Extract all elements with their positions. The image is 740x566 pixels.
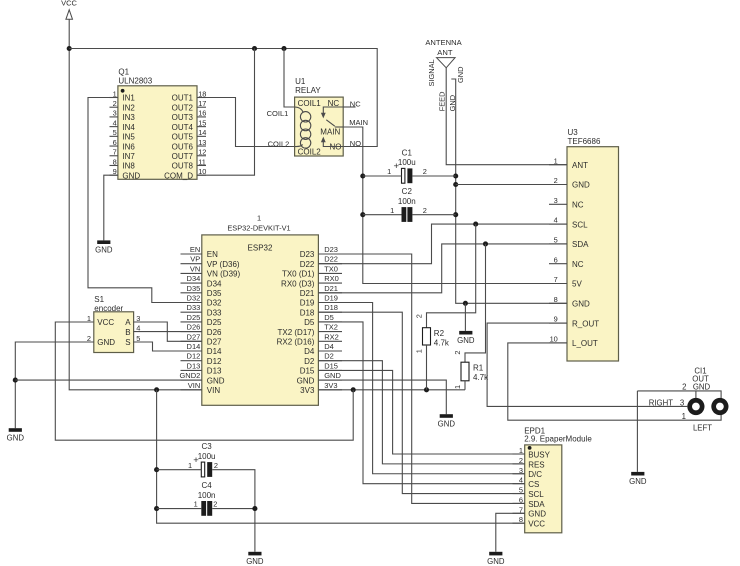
wire C4 pin 1: [157, 508, 202, 510]
svg-text:ANTENNA: ANTENNA: [425, 38, 462, 47]
wire GND2 row to ESP32: [15, 379, 202, 381]
svg-text:IN3: IN3: [122, 113, 135, 122]
svg-text:D26: D26: [187, 323, 201, 332]
module EPD1 2.9 EpaperModule: [513, 426, 593, 532]
svg-text:CS: CS: [528, 480, 539, 489]
svg-text:encoder: encoder: [94, 304, 123, 313]
wire relay NC stub: [343, 106, 355, 108]
svg-text:NO: NO: [350, 139, 361, 148]
svg-text:NC: NC: [572, 260, 584, 269]
svg-text:D15: D15: [324, 361, 338, 370]
svg-text:D35: D35: [187, 284, 201, 293]
svg-text:RES: RES: [528, 460, 544, 469]
relay U1: [295, 77, 344, 156]
svg-text:R_OUT: R_OUT: [572, 319, 599, 328]
svg-text:14: 14: [198, 128, 206, 137]
svg-text:TX2 (D17): TX2 (D17): [277, 328, 314, 337]
svg-text:IN7: IN7: [122, 152, 135, 161]
node COIL1 label: [267, 109, 289, 118]
wire D18 net: ESP32 D18 to EPD1 SCL pin 5: [318, 312, 524, 493]
svg-text:D18: D18: [300, 308, 315, 317]
wire D22 net: ESP32 D22 to U3 SCL pin 4: [318, 224, 567, 264]
wire S1 B pin 4 to ESP32 D26: [134, 331, 202, 333]
wire R1 pin 1 to 3V3 row: [464, 381, 466, 390]
power flag VCC: [61, 0, 77, 19]
svg-text:OUT8: OUT8: [172, 162, 194, 171]
svg-text:U1: U1: [295, 77, 306, 86]
svg-text:3: 3: [554, 196, 558, 205]
wire VCC net: rail down to relay COIL1: [284, 49, 295, 108]
svg-text:7: 7: [554, 275, 558, 284]
svg-text:GND: GND: [324, 371, 341, 380]
svg-text:1: 1: [414, 349, 423, 353]
svg-text:VP (D36): VP (D36): [207, 260, 240, 269]
svg-text:MAIN: MAIN: [349, 118, 368, 127]
svg-text:GND: GND: [457, 336, 475, 345]
svg-text:SCL: SCL: [572, 220, 588, 229]
svg-text:FEED: FEED: [438, 92, 447, 112]
ground C3 C4: [246, 552, 264, 566]
ground Q1 GND: [95, 240, 113, 254]
svg-text:D14: D14: [187, 342, 201, 351]
svg-text:OUT3: OUT3: [172, 113, 194, 122]
svg-text:SCL: SCL: [528, 490, 544, 499]
node NO label: [350, 139, 361, 148]
svg-text:2: 2: [213, 500, 217, 509]
wire antenna ground line down to GND junction and U3 pin 8: [451, 79, 567, 303]
capacitor C4 100n: [194, 481, 218, 516]
svg-text:A: A: [125, 318, 131, 327]
svg-text:8: 8: [519, 515, 523, 524]
svg-text:2: 2: [214, 461, 218, 470]
svg-text:D21: D21: [324, 284, 338, 293]
junction VCC rail / COIL1 riser: [281, 46, 286, 51]
svg-text:D26: D26: [207, 328, 222, 337]
svg-text:D18: D18: [324, 303, 338, 312]
svg-text:RX0: RX0: [324, 274, 339, 283]
svg-text:D32: D32: [187, 294, 201, 303]
svg-text:D4: D4: [304, 347, 315, 356]
svg-text:D15: D15: [300, 367, 315, 376]
svg-text:GND: GND: [629, 477, 647, 486]
junction MAIN net / C1 pin 1: [360, 173, 365, 178]
wire C4 pin 2: [212, 508, 255, 510]
encoder S1: [87, 295, 140, 353]
node COIL2 label: [268, 140, 290, 149]
svg-text:COIL1: COIL1: [267, 109, 289, 118]
svg-text:GND: GND: [693, 382, 711, 391]
svg-text:7: 7: [113, 148, 117, 157]
wire VCC net: top rail to relay NO: [69, 49, 377, 147]
wire CI1 GND down to ground: [636, 391, 638, 472]
svg-text:3: 3: [680, 398, 684, 407]
wire VIN net down to bottom rail and EPD1 VCC pin 8: [157, 390, 525, 523]
svg-text:2: 2: [554, 176, 558, 185]
svg-text:OUT4: OUT4: [172, 123, 194, 132]
svg-text:D2: D2: [324, 352, 334, 361]
svg-text:GND: GND: [487, 557, 505, 566]
svg-text:GND: GND: [297, 376, 315, 385]
svg-text:RX2: RX2: [324, 332, 339, 341]
svg-text:+: +: [193, 455, 199, 466]
svg-text:GND: GND: [456, 67, 465, 83]
svg-text:VP: VP: [190, 255, 200, 264]
wire VCC net: rail down to Q1 COM_D pin 10: [197, 49, 255, 176]
svg-text:S: S: [125, 338, 130, 347]
svg-text:VIN: VIN: [188, 381, 201, 390]
svg-text:D27: D27: [207, 338, 222, 347]
svg-text:TEF6686: TEF6686: [568, 137, 601, 146]
wire S1 S pin 5 to ESP32 D14: [134, 342, 202, 351]
svg-text:1: 1: [194, 500, 198, 509]
wire S1 A pin 3 to ESP32 D27: [134, 322, 202, 341]
svg-text:D23: D23: [300, 250, 315, 259]
svg-text:D12: D12: [207, 357, 222, 366]
svg-text:+: +: [394, 161, 400, 172]
svg-text:OUT5: OUT5: [172, 133, 194, 142]
junction VIN branch / C4 pin 1: [154, 506, 159, 511]
svg-text:GND: GND: [122, 171, 140, 180]
svg-text:IN4: IN4: [122, 123, 135, 132]
resistor R1 4.7k: [453, 350, 489, 389]
svg-text:D22: D22: [300, 260, 315, 269]
svg-text:R2: R2: [434, 329, 445, 338]
wire ESP32 GND pin to ground: [318, 380, 446, 414]
svg-text:D32: D32: [207, 299, 222, 308]
wire Q1 GND pin 9 to ground: [104, 175, 118, 240]
wire 3V3 row from ESP32 to R1 bottom: [318, 389, 465, 391]
svg-text:1: 1: [390, 206, 394, 215]
svg-text:D35: D35: [207, 289, 222, 298]
svg-text:LEFT: LEFT: [693, 423, 712, 432]
svg-text:C1: C1: [402, 149, 413, 158]
wire R2 pin 1 to 3V3 row: [426, 345, 428, 390]
svg-text:4: 4: [519, 476, 523, 485]
capacitor C3 100u: [188, 442, 218, 477]
svg-text:D12: D12: [187, 352, 201, 361]
svg-text:OUT6: OUT6: [172, 142, 194, 151]
svg-text:2: 2: [423, 167, 427, 176]
svg-text:VN (D39): VN (D39): [207, 270, 241, 279]
svg-text:ESP32: ESP32: [248, 244, 273, 253]
svg-text:BUSY: BUSY: [528, 450, 550, 459]
svg-text:IN6: IN6: [122, 142, 135, 151]
wire antenna feed to U3 pin 1 (ANT): [446, 68, 567, 165]
svg-text:3: 3: [519, 466, 523, 475]
svg-text:COM_D: COM_D: [164, 171, 193, 180]
svg-text:IN5: IN5: [122, 133, 135, 142]
IC U3 TEF6686: [549, 128, 619, 361]
wire Q1 OUT1 pin 18 to relay COIL2: [197, 98, 295, 147]
junction C4 pin 2 / GND drop: [252, 506, 257, 511]
wire C3 pin 2: [212, 470, 255, 552]
svg-text:11: 11: [198, 157, 206, 166]
svg-text:2: 2: [682, 382, 686, 391]
wire C1 pin 2: [412, 175, 455, 177]
wire relay MAIN to U3 pin 7 (5V): [343, 127, 567, 284]
wire EPD1 GND pin 7 to ground: [496, 513, 525, 552]
svg-text:1: 1: [87, 314, 91, 323]
svg-text:D33: D33: [207, 308, 222, 317]
svg-text:TX0 (D1): TX0 (D1): [282, 270, 315, 279]
wire D2 net: ESP32 D2 to EPD1 RES pin 2: [318, 361, 524, 464]
wire CI1 GND top link: [637, 391, 721, 399]
svg-text:1: 1: [453, 385, 462, 389]
svg-text:1: 1: [519, 446, 523, 455]
svg-text:D19: D19: [324, 294, 338, 303]
svg-text:D19: D19: [300, 299, 315, 308]
svg-text:D5: D5: [304, 318, 315, 327]
svg-text:D34: D34: [207, 279, 222, 288]
svg-text:VCC: VCC: [528, 520, 545, 529]
svg-text:D/C: D/C: [528, 470, 542, 479]
junction ant-gnd / C1 pin 2: [453, 173, 458, 178]
wire Q1 IN1 to ESP32 D32: [88, 98, 202, 303]
module ESP32-DEVKIT-V1 (1): [179, 213, 342, 405]
wire C3 pin 1: [157, 469, 202, 471]
svg-text:GND: GND: [207, 376, 225, 385]
svg-text:RIGHT: RIGHT: [649, 398, 673, 407]
ground S1 GND: [7, 428, 25, 442]
svg-text:6: 6: [113, 138, 117, 147]
svg-text:D13: D13: [187, 361, 201, 370]
svg-text:R1: R1: [473, 363, 484, 372]
capacitor C1 100u: [387, 149, 427, 184]
wire D15 net: ESP32 D15 to EPD1 BUSY pin 1: [318, 370, 524, 454]
svg-text:GND: GND: [95, 246, 113, 255]
svg-text:NC: NC: [572, 201, 584, 210]
svg-text:9: 9: [554, 315, 558, 324]
svg-text:13: 13: [198, 138, 206, 147]
wire GND drop to ground symbol: [464, 303, 466, 331]
svg-text:SIGNAL: SIGNAL: [427, 59, 436, 86]
junction ant-gnd / U3 pin 2 GND: [453, 182, 458, 187]
svg-text:RX0 (D3): RX0 (D3): [281, 279, 315, 288]
svg-text:8: 8: [554, 295, 558, 304]
svg-text:100n: 100n: [398, 197, 416, 206]
svg-text:2.9. EpaperModule: 2.9. EpaperModule: [524, 435, 592, 444]
svg-text:D23: D23: [324, 245, 338, 254]
wire U3 R_OUT pin 9 to CI1 RIGHT: [487, 323, 687, 406]
svg-text:SDA: SDA: [528, 500, 545, 509]
capacitor C2 100n: [390, 187, 427, 222]
svg-text:10: 10: [550, 335, 558, 344]
svg-text:VN: VN: [190, 264, 200, 273]
svg-text:Q1: Q1: [118, 68, 129, 77]
wire S1 GND pin 2 to ground: [15, 342, 94, 428]
svg-text:2: 2: [423, 206, 427, 215]
connector CI1 OUT audio jack: [649, 366, 729, 432]
svg-text:100n: 100n: [198, 491, 216, 500]
svg-text:ANT: ANT: [572, 161, 588, 170]
junction SCL row / R2 pull-up: [473, 222, 478, 227]
svg-text:COIL2: COIL2: [268, 140, 290, 149]
wire U3 L_OUT pin 10 to CI1 LEFT: [508, 343, 721, 420]
ground CI1 GND: [629, 472, 647, 486]
svg-text:S1: S1: [94, 295, 104, 304]
svg-text:ULN2803: ULN2803: [118, 77, 152, 86]
IC Q1 ULN2803: [110, 68, 207, 181]
svg-text:2: 2: [453, 350, 462, 354]
svg-text:4.7k: 4.7k: [434, 338, 450, 347]
svg-text:3V3: 3V3: [324, 381, 337, 390]
svg-text:COIL1: COIL1: [298, 99, 322, 108]
svg-text:IN8: IN8: [122, 162, 135, 171]
svg-text:3: 3: [113, 109, 117, 118]
svg-text:D13: D13: [207, 367, 222, 376]
svg-text:RX2 (D16): RX2 (D16): [277, 338, 315, 347]
wire R2 pin 2 to SCL net: [427, 224, 476, 328]
svg-text:D25: D25: [187, 313, 201, 322]
svg-text:8: 8: [113, 157, 117, 166]
node NC label: [350, 100, 361, 109]
junction 3V3 row / branch to S1 VCC: [351, 387, 356, 392]
svg-text:EN: EN: [207, 250, 218, 259]
svg-text:2: 2: [113, 99, 117, 108]
junction S1 GND / ESP32 GND2 row: [13, 378, 18, 383]
svg-text:5: 5: [519, 486, 523, 495]
wire C2 pin 1: [363, 214, 402, 216]
svg-text:D33: D33: [187, 303, 201, 312]
svg-text:D4: D4: [324, 342, 334, 351]
svg-text:10: 10: [198, 167, 206, 176]
svg-text:GND: GND: [246, 557, 264, 566]
svg-text:6: 6: [519, 495, 523, 504]
svg-text:C3: C3: [201, 442, 212, 451]
junction 3V3 row / R2 bottom: [424, 387, 429, 392]
svg-text:1: 1: [188, 461, 192, 470]
wire U3 pin 2 GND to ant-gnd line: [456, 184, 567, 186]
wire R1 pin 2 to SDA net: [465, 244, 486, 362]
svg-text:4: 4: [554, 216, 558, 225]
junction SDA row / R1 pull-up: [483, 241, 488, 246]
svg-text:D34: D34: [187, 274, 201, 283]
ground U3 GND net: [457, 331, 475, 345]
svg-text:GND: GND: [7, 433, 25, 442]
ground ESP32 GND: [438, 414, 456, 428]
svg-text:OUT2: OUT2: [172, 103, 194, 112]
svg-text:C2: C2: [402, 187, 413, 196]
svg-text:U3: U3: [568, 128, 579, 137]
svg-text:OUT7: OUT7: [172, 152, 194, 161]
junction VCC rail at (69,48.5): [67, 46, 72, 51]
wire D23 net: ESP32 D23 to EPD1 SDA pin 6: [318, 254, 524, 503]
svg-text:D27: D27: [187, 332, 201, 341]
svg-text:ANT: ANT: [437, 48, 453, 57]
svg-text:MAIN: MAIN: [320, 128, 340, 137]
svg-text:B: B: [125, 328, 130, 337]
svg-text:VIN: VIN: [207, 386, 221, 395]
svg-text:GND: GND: [528, 510, 546, 519]
ground EPD1 GND: [487, 552, 505, 566]
svg-text:GND: GND: [572, 181, 590, 190]
svg-text:VCC: VCC: [61, 0, 77, 8]
svg-text:D14: D14: [207, 347, 222, 356]
junction MAIN net / C2 pin 1: [360, 212, 365, 217]
svg-text:RELAY: RELAY: [295, 86, 321, 95]
svg-text:D21: D21: [300, 289, 315, 298]
svg-text:1: 1: [554, 156, 558, 165]
svg-text:4: 4: [113, 118, 117, 127]
svg-text:GND: GND: [438, 419, 456, 428]
junction VIN row / branch down to C3-C4: [154, 387, 159, 392]
svg-text:ESP32-DEVKIT-V1: ESP32-DEVKIT-V1: [227, 224, 290, 233]
wire 3V3 net: branch down-left to S1 VCC pin 1: [55, 322, 353, 440]
svg-text:5: 5: [554, 236, 558, 245]
svg-text:5: 5: [113, 128, 117, 137]
svg-text:GND: GND: [97, 338, 115, 347]
svg-text:16: 16: [198, 109, 206, 118]
svg-text:1: 1: [257, 213, 261, 222]
svg-text:6: 6: [554, 255, 558, 264]
svg-text:100u: 100u: [398, 158, 416, 167]
wire D5 net: ESP32 D5 to EPD1 CS pin 4: [318, 322, 524, 484]
junction VCC rail / COM_D riser: [252, 46, 257, 51]
wire D19 net: ESP32 D19 to EPD1 D/C pin 3: [318, 303, 524, 474]
junction GND net drop near U3: [463, 301, 468, 306]
svg-text:2: 2: [414, 314, 423, 318]
svg-text:1: 1: [387, 167, 391, 176]
svg-text:TX0: TX0: [324, 264, 338, 273]
svg-text:TX2: TX2: [324, 323, 338, 332]
svg-text:COIL2: COIL2: [298, 148, 322, 157]
svg-text:3V3: 3V3: [300, 386, 315, 395]
svg-text:OUT1: OUT1: [172, 94, 194, 103]
svg-text:VCC: VCC: [97, 318, 114, 327]
svg-text:D25: D25: [207, 318, 222, 327]
junction ant-gnd / C2 pin 2: [453, 212, 458, 217]
wire VCC net: VCC symbol down to VIN row then to ESP32 VIN: [69, 19, 202, 390]
resistor R2 4.7k: [414, 314, 450, 353]
svg-text:15: 15: [198, 118, 206, 127]
svg-text:D2: D2: [304, 357, 315, 366]
junction VIN branch / C3 pin 1: [154, 467, 159, 472]
svg-text:EN: EN: [190, 245, 200, 254]
svg-text:SDA: SDA: [572, 240, 589, 249]
wire D21 net: ESP32 D21 to U3 SDA pin 5: [318, 244, 567, 293]
svg-text:C4: C4: [201, 481, 212, 490]
svg-text:GND: GND: [572, 300, 590, 309]
svg-text:1: 1: [682, 412, 686, 421]
svg-text:12: 12: [198, 148, 206, 157]
svg-text:5V: 5V: [572, 280, 582, 289]
svg-text:IN2: IN2: [122, 103, 135, 112]
antenna ANT: [425, 38, 465, 111]
wire C2 pin 2: [412, 214, 455, 216]
svg-text:17: 17: [198, 99, 206, 108]
svg-text:IN1: IN1: [122, 94, 135, 103]
svg-text:L_OUT: L_OUT: [572, 339, 598, 348]
svg-text:2: 2: [519, 456, 523, 465]
svg-text:D22: D22: [324, 255, 338, 264]
svg-text:GND2: GND2: [179, 371, 200, 380]
node MAIN label: [349, 118, 368, 127]
svg-text:D5: D5: [324, 313, 334, 322]
wire C1 pin 1: [363, 175, 402, 177]
svg-text:100u: 100u: [198, 452, 216, 461]
